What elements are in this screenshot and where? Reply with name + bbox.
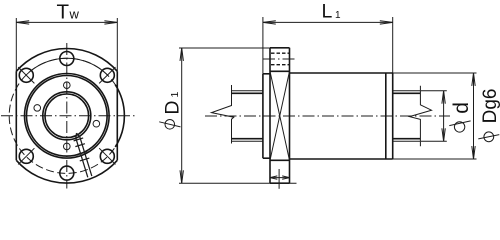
boss face [262, 74, 264, 158]
oil hole right [93, 120, 100, 127]
svg-text:T: T [57, 1, 70, 24]
front view vertical centerline [66, 43, 68, 189]
phi D1 dimension line [180, 48, 183, 183]
body bottom edge [290, 158, 393, 160]
boss bottom edge [263, 157, 270, 159]
bolt hole upper-right with slash [99, 67, 115, 83]
flange right flat [116, 71, 118, 160]
left shaft stub inner top edge [232, 92, 263, 94]
Tw right extension line [116, 18, 118, 71]
bore circle [45, 94, 89, 138]
phi d label [449, 102, 473, 132]
right shaft stub outer bottom edge [393, 140, 421, 142]
bolt hole bottom [60, 166, 74, 180]
flange thickness dimension line [270, 176, 290, 179]
body top edge [290, 72, 393, 74]
svg-text:1: 1 [335, 10, 341, 21]
flange outer circle bottom arc [16, 160, 117, 183]
bolt hole top [60, 52, 74, 66]
bolt hole hidden line upper [271, 52, 289, 54]
flange thickness leader line [278, 169, 280, 189]
phi D1 bottom extension line [179, 182, 297, 184]
bolt hole upper-left with slash [18, 67, 34, 83]
left shaft stub outer top edge [232, 90, 263, 92]
flange full-diameter right bulge arc [115, 85, 124, 147]
svg-text:Dg6: Dg6 [480, 89, 500, 124]
left break line zigzag [212, 85, 234, 144]
L1 left extension line [262, 17, 264, 74]
oil hole top [64, 82, 71, 89]
boss circle outer [25, 74, 110, 159]
phi D1 label [159, 92, 183, 130]
flange cross diagonal 2 [270, 71, 290, 160]
svg-text:L: L [322, 1, 333, 23]
flange bottom edge [270, 182, 290, 184]
phi d top extension line [421, 90, 447, 92]
phi D1 top extension line [179, 47, 290, 49]
right break line zigzag [410, 86, 432, 146]
right shaft stub inner bottom edge [393, 138, 421, 140]
flange cross diagonal 1 [270, 71, 290, 160]
right shaft stub outer top edge [393, 90, 421, 92]
body end chamfer line [385, 73, 387, 159]
L1 label [322, 1, 342, 23]
oil hole bottom [64, 143, 71, 150]
Tw dimension line [16, 21, 117, 24]
flange left flat [15, 71, 17, 160]
tilted pin with hatch marks [74, 133, 92, 177]
bolt hole hidden line lower [271, 64, 289, 66]
oil hole left [34, 105, 41, 112]
svg-text:w: w [69, 7, 80, 22]
flange flat upper boundary [270, 70, 290, 72]
phi Dg6 bottom extension line [393, 158, 477, 160]
flange right edge [289, 48, 291, 183]
left shaft stub outer bottom edge [232, 140, 263, 142]
svg-text:d: d [450, 102, 473, 114]
svg-text:1: 1 [169, 92, 181, 98]
flange top edge [270, 47, 290, 49]
L1 dimension line [263, 21, 393, 24]
body right edge [392, 73, 394, 159]
bolt circle dashed [9, 58, 124, 173]
bolt hole lower-right with slash [99, 148, 115, 164]
flange left edge [269, 48, 271, 183]
bolt hole lower-left with slash [18, 148, 34, 164]
Tw label [57, 1, 80, 24]
phi d dimension line [442, 91, 445, 141]
right shaft stub inner top edge [393, 92, 421, 94]
flange flat lower boundary [270, 159, 290, 161]
bore chamfer circle [43, 92, 91, 140]
front view horizontal centerline [1, 115, 135, 117]
phi Dg6 top extension line [393, 72, 477, 74]
side view axis centerline [205, 115, 450, 117]
flange outer circle top arc [16, 48, 117, 71]
left shaft stub inner bottom edge [232, 138, 263, 140]
boss circle inner chamfer [27, 76, 108, 157]
Tw left extension line [15, 18, 17, 71]
phi Dg6 label [478, 89, 500, 142]
phi Dg6 dimension line [472, 73, 475, 159]
svg-text:D: D [161, 101, 183, 115]
phi d bottom extension line [421, 140, 447, 142]
L1 right extension line [392, 17, 394, 73]
flange circle top solid arc [26, 58, 107, 75]
boss top edge [263, 73, 270, 75]
bolt hole centerline [263, 58, 298, 60]
